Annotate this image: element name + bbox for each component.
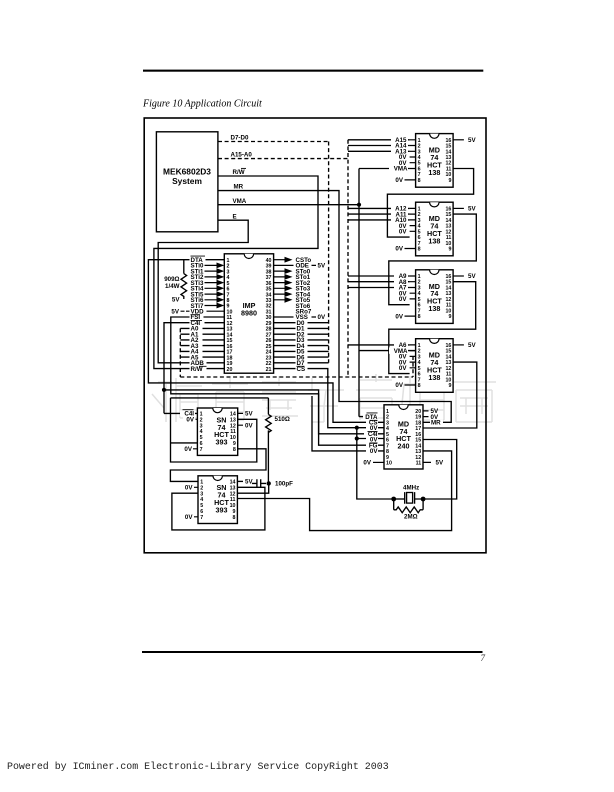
U1 overlines DTA FSI C4I R/W <box>191 256 207 366</box>
svg-text:393: 393 <box>216 438 228 447</box>
U6 left labels DTA CS 0V C4I 0V FG 0V 0V <box>363 414 378 467</box>
svg-text:MR: MR <box>431 420 441 427</box>
svg-text:10: 10 <box>386 461 392 467</box>
svg-text:Figure 10 Application Circuit: Figure 10 Application Circuit <box>142 99 262 110</box>
svg-text:E: E <box>233 213 237 220</box>
U5 pin stubs left <box>405 345 416 385</box>
wire IMP D7 to bus <box>274 362 329 364</box>
decoder U4 MD74HCT138 #3 <box>416 270 454 324</box>
svg-text:510Ω: 510Ω <box>275 416 290 423</box>
wire 0V vertical MD240 pins 4-6 to crystal <box>357 428 394 499</box>
svg-text:0V: 0V <box>399 365 407 372</box>
svg-text:9: 9 <box>448 247 451 253</box>
wire MD240 pin8 0V <box>312 396 384 451</box>
svg-text:21: 21 <box>266 367 272 373</box>
wire decoder3 pin15 to decoder4 pin6 <box>389 282 476 374</box>
wire IMP D5 to bus <box>274 350 329 352</box>
wire A7 tap <box>348 287 410 289</box>
wire MD240 pin13 to SN393-2 pin11 <box>237 451 451 531</box>
svg-text:System: System <box>172 176 202 186</box>
svg-text:0V: 0V <box>395 246 403 253</box>
wire A9 tap <box>348 275 410 277</box>
svg-text:8: 8 <box>233 447 236 453</box>
U6 overlines on DTA CS C4I FG <box>367 413 378 443</box>
svg-text:393: 393 <box>216 505 228 514</box>
U1 ODE + VSS stubs <box>274 265 316 317</box>
U1 left labels <box>190 257 207 373</box>
wire A4 tap to IMP <box>180 350 224 352</box>
node VMA junction <box>357 203 361 207</box>
U5 pin16 5V stub <box>453 344 464 346</box>
bus dashed vertical stub right <box>412 356 414 377</box>
svg-text:5V: 5V <box>468 342 476 349</box>
U4 pin16 5V stub <box>453 275 464 277</box>
wire decoder1 pin11 to decoder2 pin6 <box>387 169 473 238</box>
svg-text:11: 11 <box>416 461 422 467</box>
schematic outer border box <box>144 118 486 553</box>
svg-text:7: 7 <box>200 515 203 521</box>
svg-text:R/W: R/W <box>191 366 203 373</box>
svg-text:CS: CS <box>297 366 306 373</box>
bottom rule <box>142 651 483 653</box>
U6 right stubs 5V 0V MR / 5V <box>423 411 431 463</box>
svg-text:0V: 0V <box>318 314 326 321</box>
svg-text:5V: 5V <box>436 460 444 467</box>
svg-text:0V: 0V <box>370 448 378 455</box>
resistor 909ohm <box>181 274 187 299</box>
wire 909 ohm pullup tap <box>183 260 185 274</box>
svg-text:0V: 0V <box>184 446 192 453</box>
wire SN393-1 pin8 to SN393-2 pin1 <box>170 449 266 482</box>
counter U7 SN74HCT393 #1 <box>197 408 237 455</box>
U1 STi stub lines <box>186 265 224 311</box>
U1 STi input arrows pins 2-9 <box>217 263 225 309</box>
U4 pin stubs left <box>405 276 416 316</box>
wire A13 tap <box>348 150 410 152</box>
wire SN393-2 pin12 to cap node <box>237 483 268 493</box>
node crystal right <box>421 497 426 502</box>
wire DTA from IMP pin1 down left side <box>148 260 384 423</box>
wire A14 tap <box>348 145 410 147</box>
svg-text:0V: 0V <box>186 417 194 424</box>
svg-text:5V: 5V <box>171 308 179 315</box>
svg-text:R/W: R/W <box>233 169 245 176</box>
watermark 维库电子市场网 (approximated outline glyphs) <box>152 374 496 422</box>
wire MR from MEK <box>218 191 451 423</box>
U5 labels A6 VMA 0V 0V 0V 0V <box>389 342 408 390</box>
svg-text:A15-A0: A15-A0 <box>231 151 253 158</box>
U1 right CSTo arrow pin40 <box>274 259 285 261</box>
svg-text:909Ω: 909Ω <box>164 276 179 283</box>
wire VMA from MEK <box>218 204 359 206</box>
crystal XTAL1 4MHz <box>405 492 423 504</box>
U3 pin16 5V stub <box>453 207 464 209</box>
U7 labels C4I 0V / 0V <box>180 410 195 453</box>
svg-text:5V: 5V <box>245 479 253 486</box>
resistor 510ohm <box>266 414 272 432</box>
U3 pin stubs left <box>405 208 416 248</box>
svg-text:8: 8 <box>418 314 421 320</box>
wire E from MEK to IMP ADB <box>158 220 248 363</box>
svg-text:138: 138 <box>428 304 440 313</box>
wire A11 tap <box>348 213 410 215</box>
wire A3 tap to IMP <box>180 345 224 347</box>
resistor 909 ohm labels <box>164 276 180 303</box>
U2 labels A15 A14 A13 0V 0V VMA 0V <box>389 137 408 185</box>
wire A10 tap <box>348 219 410 221</box>
counter U8 SN74HCT393 #2 <box>198 476 237 524</box>
wire SN393-2 pin3 loop <box>172 487 265 530</box>
U7 overline C4I <box>183 409 194 411</box>
svg-text:0V: 0V <box>395 382 403 389</box>
svg-text:5V: 5V <box>245 411 253 418</box>
svg-text:9: 9 <box>448 178 451 184</box>
wire 510 ohm bottom to cap node <box>267 430 269 483</box>
svg-text:0V: 0V <box>395 313 403 320</box>
svg-text:0V: 0V <box>245 422 253 429</box>
svg-text:100pF: 100pF <box>275 481 293 488</box>
svg-text:7: 7 <box>481 653 486 663</box>
bus A15-A0 lower dashed horizontal <box>180 376 413 378</box>
wire IMP D4 to bus <box>274 345 329 347</box>
U2 pin stubs left <box>405 140 416 180</box>
wire IMP D1 to bus <box>274 327 329 329</box>
wire SN393-1 pin6 feedback from pin13 <box>171 398 257 462</box>
decoder U5 MD74HCT138 #4 <box>416 339 454 393</box>
svg-text:8: 8 <box>233 515 236 521</box>
U8 pin2 pin7 stubs <box>194 487 198 517</box>
svg-text:0V: 0V <box>185 485 193 492</box>
svg-text:0V: 0V <box>185 514 193 521</box>
decoder U3 MD74HCT138 #2 <box>416 202 454 256</box>
wire IMP D0 to bus <box>274 322 329 324</box>
wire R/W from MEK <box>154 176 318 369</box>
svg-text:138: 138 <box>428 168 440 177</box>
resistor 2Mohm legs <box>394 499 423 510</box>
U7 pin2 pin7 stubs <box>193 419 197 449</box>
wire IMP CS to MD240 pin4 <box>274 369 384 428</box>
wire A15 tap <box>348 139 410 141</box>
node C4I junction <box>162 388 166 392</box>
svg-text:5V: 5V <box>468 206 476 213</box>
svg-text:7: 7 <box>200 447 203 453</box>
wire A6 tap <box>348 344 410 346</box>
bus A0-A5 dashed vertical <box>179 328 181 377</box>
svg-text:5V: 5V <box>468 137 476 144</box>
svg-text:VMA: VMA <box>394 166 408 173</box>
wire FSI net from IMP pin11 to MD240 FG <box>171 317 384 445</box>
wire 510 ohm top rail <box>171 398 269 415</box>
U1 right STo arrows pins 38-33 <box>274 271 285 300</box>
svg-text:0V: 0V <box>399 296 407 303</box>
wire A0 tap to IMP <box>180 327 224 329</box>
wire decoder4 pin13 to MD240 pin17 <box>423 362 477 428</box>
svg-text:0V: 0V <box>399 229 407 236</box>
wire crystal left lead <box>394 498 405 500</box>
svg-text:9: 9 <box>448 383 451 389</box>
U6 pin10 0V stub <box>373 461 384 463</box>
node 0V pin4 junction <box>355 426 359 430</box>
buffer U6 MD74HCT240 <box>384 405 423 469</box>
top rule <box>143 70 483 72</box>
svg-text:0V: 0V <box>395 177 403 184</box>
U7 right stubs 5V 0V <box>238 413 243 425</box>
svg-text:5V: 5V <box>172 297 180 304</box>
bus A15-A0 dashed horizontal <box>218 158 348 160</box>
svg-text:8: 8 <box>418 247 421 253</box>
wire A2 tap to IMP <box>180 339 224 341</box>
wire VMA vertical to decoders and MD240 pin2 <box>359 169 416 417</box>
U2 pin16 5V stub <box>453 139 464 141</box>
U3 labels A12 A11 A10 0V 0V 0V <box>391 205 408 253</box>
U4 labels A9 A8 A7 0V 0V 0V <box>393 273 408 321</box>
svg-text:2MΩ: 2MΩ <box>404 513 418 520</box>
wire IMP D3 to bus <box>274 339 329 341</box>
svg-text:9: 9 <box>448 314 451 320</box>
node 100pF junction <box>267 481 271 485</box>
wire C4I net from IMP pin12 <box>164 323 384 434</box>
svg-text:D7-D0: D7-D0 <box>231 134 249 141</box>
svg-text:MR: MR <box>234 184 244 191</box>
svg-text:Powered by ICminer.com Electro: Powered by ICminer.com Electronic-Librar… <box>7 761 389 772</box>
wire A8 tap <box>348 281 410 283</box>
svg-text:1/4W: 1/4W <box>165 283 180 290</box>
cpu U1 IMP8980 <box>224 254 273 373</box>
svg-text:138: 138 <box>428 236 440 245</box>
U8 labels 0V 0V <box>185 485 193 521</box>
MEK6802D3 System box <box>156 132 218 232</box>
svg-text:VMA: VMA <box>233 198 247 205</box>
svg-text:8: 8 <box>418 383 421 389</box>
svg-text:20: 20 <box>227 367 233 373</box>
bus A15-A0 dashed vertical <box>347 140 349 377</box>
svg-text:240: 240 <box>398 442 410 451</box>
U1 overline CS pin21 <box>297 365 305 367</box>
bus D7-D0 dashed horizontal <box>218 141 329 143</box>
U1 right labels <box>296 257 326 373</box>
capacitor 100pF plates <box>252 479 266 487</box>
svg-text:5V: 5V <box>318 263 326 270</box>
bus D7-D0 dashed vertical <box>328 142 330 363</box>
wire A12 tap <box>348 207 410 209</box>
svg-text:8980: 8980 <box>241 308 257 317</box>
node 0V pin6 junction <box>355 436 359 440</box>
wire IMP D2 to bus <box>274 333 329 335</box>
svg-text:5V: 5V <box>468 273 476 280</box>
resistor 2Mohm <box>394 507 423 513</box>
wire SN393-2 pin14 5V stub <box>237 480 243 482</box>
svg-text:8: 8 <box>418 178 421 184</box>
wire IMP D6 to bus <box>274 356 329 358</box>
wire decoder2 pin15 to decoder3 pin6 <box>389 214 477 305</box>
svg-text:4MHz: 4MHz <box>403 484 419 491</box>
svg-text:138: 138 <box>428 373 440 382</box>
decoder U2 MD74HCT138 #1 <box>416 134 454 188</box>
wire A1 tap to IMP <box>180 333 224 335</box>
node crystal left <box>391 497 396 502</box>
svg-text:0V: 0V <box>363 460 371 467</box>
wire MD240 pin15 to crystal right <box>423 440 457 500</box>
wire A5 tap to IMP <box>180 356 224 358</box>
